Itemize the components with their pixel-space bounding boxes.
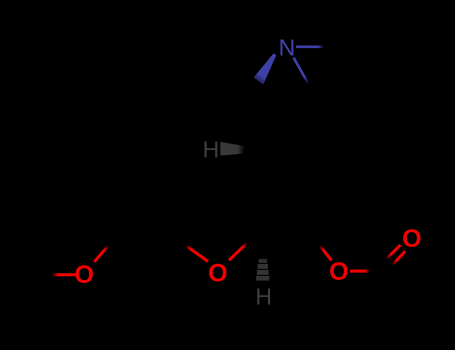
- bond N-C16 (bold wedge down-left, nitrogen half): [254, 53, 277, 84]
- bond C=O line 2 (carbonyl double bond second line, oxygen half, fades down-left): [392, 251, 405, 265]
- svg-text:O: O: [74, 261, 93, 289]
- bond C=O line 1 (carbonyl double bond, oxygen half, fades down-left): [386, 245, 401, 259]
- bond C6-O (ester link to C6, oxygen half, fades up-left): [320, 246, 332, 261]
- bond O-C(=O) (ester oxygen to carbonyl carbon, oxygen half, fades right): [350, 270, 370, 273]
- bond C5-H (hashed wedge, hydrogen half: four dashes widening downward): [256, 259, 269, 281]
- svg-text:O: O: [208, 260, 227, 288]
- bond N-C9 (diagonal down-right, nitrogen half, fades toward carbon): [294, 58, 309, 85]
- svg-text:O: O: [402, 225, 421, 253]
- svg-text:H: H: [255, 283, 272, 309]
- bond C14-H (bold wedge, hydrogen half, fades toward carbon): [220, 142, 244, 156]
- bond O-CH3 (methoxy methyl, oxygen half, fades left): [52, 273, 76, 276]
- bond N-CH3 (horizontal, nitrogen half, fades toward methyl): [296, 45, 324, 48]
- bond O-C5 (furan to C5, oxygen half, fades up-right): [229, 243, 247, 261]
- svg-text:O: O: [329, 258, 348, 286]
- svg-text:N: N: [279, 35, 296, 61]
- bond O-C3 (to aromatic ring, oxygen half, fades up-right): [94, 246, 108, 262]
- bond O-C4 (furan to aromatic C4, oxygen half, fades up-left): [186, 246, 208, 262]
- svg-text:H: H: [203, 137, 220, 163]
